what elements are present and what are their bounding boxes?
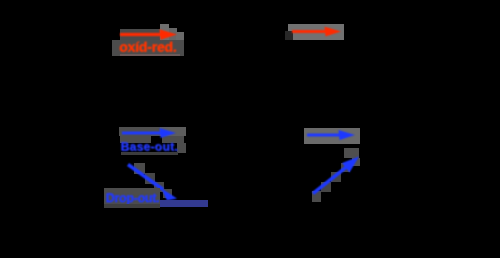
- navy bar N1 (bottom, right of label T3): [160, 200, 208, 207]
- blue arrow B1 (middle-left, points right): [122, 128, 176, 138]
- gray artifact blocks around blue arrow B1: [119, 127, 186, 153]
- gray artifact staircase along right diagonal D1: [312, 148, 360, 202]
- blue label T3 "Drop-out.": [106, 191, 160, 206]
- gray artifact strip under blue label T2: [121, 152, 178, 155]
- red arrow A1 (top-left, points right): [120, 29, 177, 40]
- gray artifact block under blue label T3: [104, 188, 160, 208]
- svg-text:Base-out.: Base-out.: [121, 140, 178, 154]
- blue diagonal arrow D1 (right side, points up-right): [313, 157, 359, 194]
- dark artifact blob left of arrow A2: [285, 31, 293, 40]
- gray artifact block under red label T1: [112, 40, 184, 56]
- gray artifact rect around blue arrow B2: [304, 128, 360, 144]
- blue diagonal arrow D2 (lower-left, points down-right): [128, 165, 177, 201]
- gray strip below label T3: [104, 204, 160, 208]
- blue arrow B2 (middle-right, points right): [307, 130, 355, 140]
- gray artifact rect around red arrow A2: [288, 24, 344, 40]
- gray artifact blocks around red arrow A1: [120, 24, 184, 40]
- blue label T2 "Base-out.": [121, 140, 179, 155]
- svg-text:oxíd-red.: oxíd-red.: [120, 39, 177, 55]
- gray artifact staircase along left diagonal D2: [134, 163, 172, 198]
- red arrow A2 (top-right, points right): [292, 27, 341, 37]
- red label T1 "oxid-red.": [119, 39, 177, 56]
- svg-text:Drop-out.: Drop-out.: [106, 191, 160, 205]
